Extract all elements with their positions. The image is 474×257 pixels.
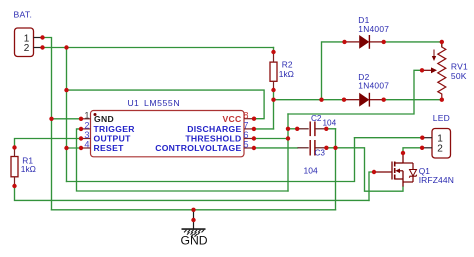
ground [181,210,208,248]
U1 pin stubs [81,119,254,148]
junction node THR pin6 tap [286,136,290,140]
svg-text:R2: R2 [282,59,293,69]
U1 pin numbers 1-8 [84,110,248,149]
junction D1 anode [342,40,346,44]
svg-text:GND: GND [94,114,114,124]
drain [402,153,404,163]
wire pin1 GND of U1 [52,118,82,120]
wire x287.5 vertical [287,114,289,191]
junction U1 pin 2 [79,127,83,131]
svg-text:LM555N: LM555N [144,98,180,108]
wire BAT.2 V+ top [43,47,274,49]
connector BAT [14,9,43,56]
junction LED pin 1 [420,136,424,140]
wire TRIGGER bus [77,129,289,191]
junction U1 pin 6 [252,136,256,140]
junction node D1 branch [319,98,323,102]
wire y113.5 horizontal to RV1 wiper [288,70,422,114]
wire V+ to VCC pin8 [67,90,265,119]
svg-text:BAT.: BAT. [14,9,33,19]
connector LED [422,113,450,158]
source [395,178,403,180]
channel segments [394,162,396,180]
svg-text:3: 3 [84,130,89,140]
svg-text:IRFZ44N: IRFZ44N [419,175,454,185]
svg-text:1kΩ: 1kΩ [279,69,294,79]
resistor R2 [270,52,294,90]
wiper arrow [422,69,432,71]
junction GND symbol pin [191,218,195,222]
svg-text:2: 2 [437,144,443,155]
wire C2 left [288,128,297,130]
transistor Q1 IRFZ44N [374,153,454,187]
U1 pin1 marker [94,113,97,116]
svg-text:U1: U1 [128,98,140,108]
svg-text:GND: GND [181,233,208,247]
capacitor C3 [298,140,327,176]
potentiometer RV1 [422,42,468,100]
adjust arrow [433,50,435,58]
junction LED pin 2 [420,146,424,150]
junction C2 pin 1 [295,127,299,131]
junction U1 pin 5 [252,146,256,150]
svg-text:C2: C2 [311,114,322,123]
wire V+ to LED.1 [355,137,423,139]
svg-text:THRESHOLD: THRESHOLD [185,134,241,144]
wire V+ to R2 top [273,48,275,53]
svg-text:104: 104 [323,119,337,128]
wire V+ bus bottom [67,138,355,182]
gate lead [374,171,392,173]
svg-text:CONTROLVOLTAGE: CONTROLVOLTAGE [155,143,241,153]
wire THRESHOLD pin6 [254,138,288,140]
svg-text:104: 104 [304,166,318,176]
resistor R1 [11,148,36,187]
junction D2 cathode [382,98,386,102]
junction BAT pin1 [40,35,44,39]
svg-text:50K: 50K [451,71,467,81]
body diode [403,162,413,164]
wire pin5 to C3 left [254,147,298,149]
svg-text:5: 5 [243,140,248,150]
junction R1 bottom [12,184,16,188]
wire OUTPUT to R1 top [15,139,82,148]
junction C3 pin 2 [324,146,328,150]
svg-text:2: 2 [84,121,89,131]
junction U1 pin 4 [79,146,83,150]
junction RV1 pin 3 [440,98,444,102]
junction BAT pin2 [40,45,44,49]
junction node THR C2 left [286,127,290,131]
svg-text:C3: C3 [315,149,326,158]
junction node V+ RESET tap [64,146,68,150]
junction node GND caps [333,146,337,150]
junction Q1 gate [372,170,376,174]
junction node V+ at x66 top [64,45,68,49]
wire C3 right to x335 [326,147,335,149]
wire R2 bottom to DISCHARGE pin7 [254,128,274,130]
junction node V+ to VCC wire [64,88,68,92]
svg-text:1: 1 [84,110,89,120]
IC U1 LM555N [81,98,254,157]
svg-text:1N4007: 1N4007 [358,81,389,91]
junction R1 top [12,145,16,149]
junction node DISCHARGE diode line [271,98,275,102]
svg-text:6: 6 [243,130,248,140]
junction U1 pin 7 [252,127,256,131]
wire D2 cathode to RV1 bottom [384,99,442,101]
svg-text:1kΩ: 1kΩ [21,164,36,174]
wire R1 bottom to gate bus [15,186,370,200]
junction Q1 drain [401,151,405,155]
svg-text:VCC: VCC [222,114,241,124]
gate bar [391,162,393,180]
wire LED.2 to Q1 drain [403,148,422,153]
wire C2R/C3R to GND bus [335,129,337,210]
wire BAT.1 to GND bus [43,38,52,210]
svg-text:4: 4 [84,140,89,150]
svg-text:1N4007: 1N4007 [358,24,389,34]
junction GND symbol top [191,208,195,212]
junction node GND at x51 [49,117,53,121]
wire D1 branch [322,42,345,100]
svg-text:8: 8 [243,110,248,120]
wire GND bus bottom [52,209,336,211]
wire gate bus up to Q1 gate [369,172,374,200]
diode D2 [344,72,389,107]
svg-text:7: 7 [243,121,248,131]
wire RESET to V+ [67,147,82,149]
wire D1 cathode to RV1 top [384,42,442,47]
arrow [400,170,404,172]
junction C2 pin 2 [324,127,328,131]
wire to D2 anode [274,99,345,101]
junction R2 bottom [271,88,275,92]
diode D1 [345,15,390,49]
wire V+ vertical x66 [66,48,68,182]
capacitor C2 [297,114,336,136]
svg-text:OUTPUT: OUTPUT [94,134,132,144]
junction D2 anode [342,98,346,102]
junction D1 cathode [382,40,386,44]
svg-text:DISCHARGE: DISCHARGE [187,124,241,134]
junction U1 pin 3 [79,136,83,140]
svg-text:RV1: RV1 [451,61,468,71]
svg-text:2: 2 [24,43,30,54]
svg-text:RESET: RESET [94,143,125,153]
junction R2 top [271,50,275,54]
wire Q1 source to GND [336,148,404,191]
junction RV1 pin 1 [440,40,444,44]
U1 pin names [94,114,242,153]
wire C2 right to x335 [326,128,335,130]
junction RV1 wiper pin 2 [420,68,424,72]
junction U1 pin 1 [79,117,83,121]
svg-text:LED: LED [433,113,450,123]
wire R2 bottom vertical [273,90,275,129]
junction U1 pin 8 [252,117,256,121]
svg-text:TRIGGER: TRIGGER [94,124,136,134]
